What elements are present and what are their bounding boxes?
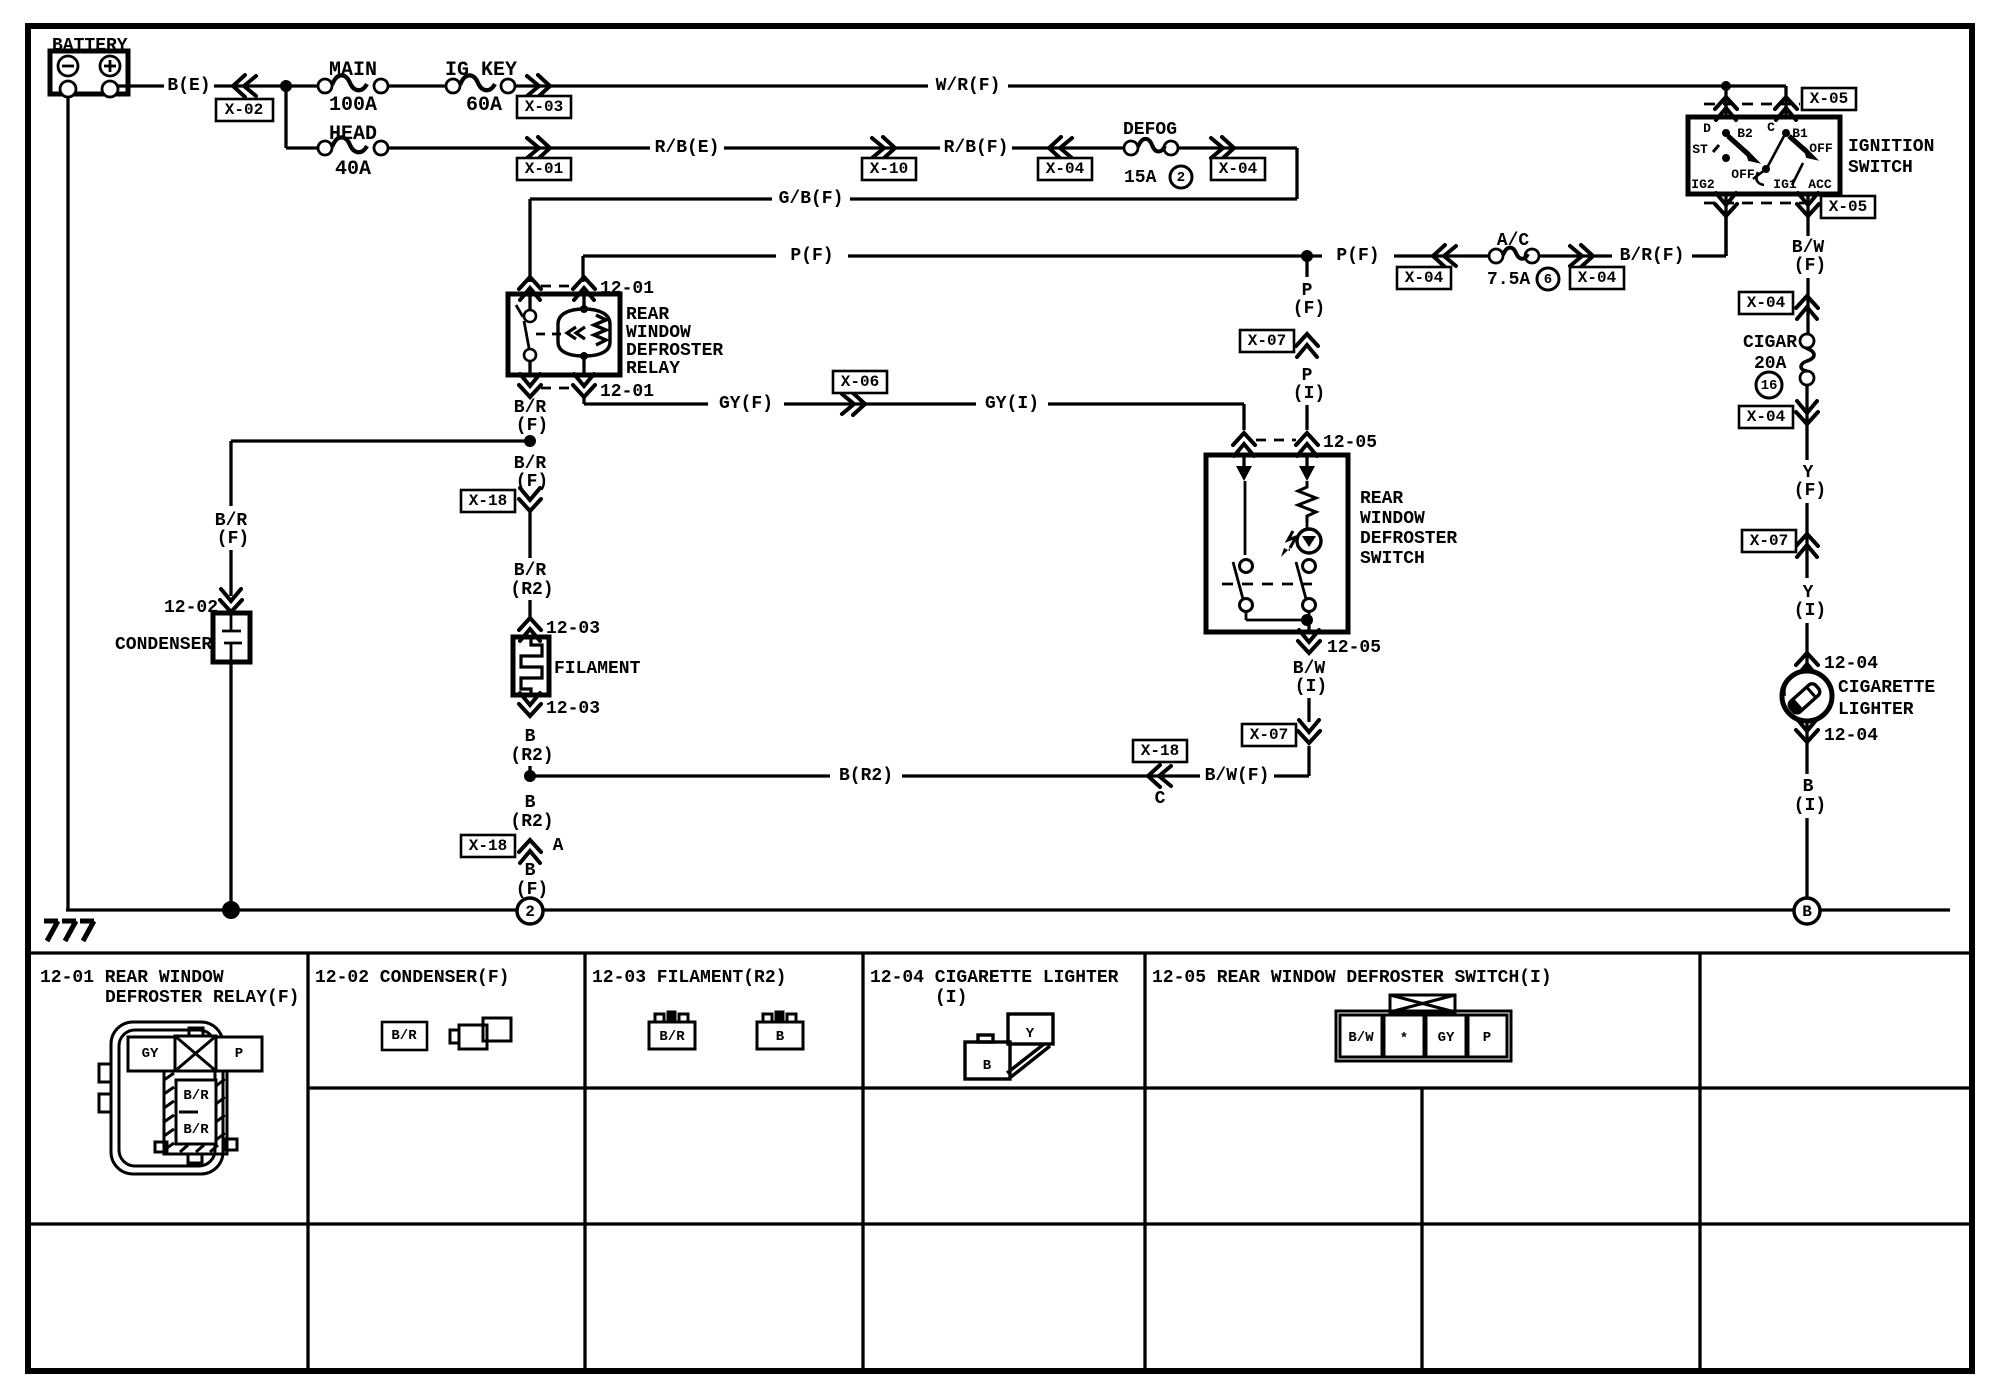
svg-text:B: B	[1803, 777, 1814, 797]
svg-text:X-10: X-10	[870, 160, 908, 178]
svg-text:X-04: X-04	[1578, 269, 1617, 287]
svg-text:X-07: X-07	[1750, 532, 1788, 550]
svg-text:B(E): B(E)	[167, 76, 210, 96]
wire to condenser branch	[231, 439, 530, 442]
connector X-05 bottom (dashed)	[1704, 202, 1815, 205]
svg-text:REAR: REAR	[1360, 489, 1403, 509]
12-03 terminal B/R	[649, 1012, 695, 1049]
svg-text:(F): (F)	[516, 416, 548, 436]
node junction main	[280, 80, 292, 92]
svg-text:B: B	[525, 861, 536, 881]
svg-text:P(F): P(F)	[1336, 246, 1379, 266]
svg-text:B/R: B/R	[391, 1028, 417, 1044]
svg-text:GY: GY	[1438, 1030, 1455, 1046]
relay switch contacts	[528, 294, 531, 310]
wire GY(F) from relay	[582, 398, 585, 404]
svg-text:IGNITION: IGNITION	[1848, 137, 1934, 157]
svg-text:6: 6	[1544, 272, 1552, 288]
svg-text:X-18: X-18	[1141, 742, 1179, 760]
wire W/R(F) drop to ignition switch	[1784, 86, 1787, 117]
node junction to condenser	[524, 435, 536, 447]
svg-text:X-03: X-03	[525, 98, 563, 116]
svg-text:P: P	[1302, 366, 1313, 386]
switch dashed link	[1222, 583, 1312, 586]
12-02 connector sketch	[450, 1018, 511, 1049]
svg-text:12-01 REAR WINDOW: 12-01 REAR WINDOW	[40, 968, 224, 988]
svg-text:2: 2	[525, 903, 535, 921]
svg-text:X-04: X-04	[1219, 160, 1258, 178]
ground connector B	[1794, 898, 1820, 924]
node junction B(R2)	[524, 770, 536, 782]
svg-text:(I): (I)	[1794, 796, 1826, 816]
svg-text:16: 16	[1761, 378, 1778, 394]
wire	[388, 84, 446, 87]
svg-text:12-03: 12-03	[546, 619, 600, 639]
wire B/W(F) down from ACC	[1806, 194, 1809, 236]
connector X-18 A	[519, 840, 541, 863]
connector X-10	[872, 137, 895, 159]
svg-text:40A: 40A	[335, 158, 371, 181]
svg-text:(F): (F)	[1794, 256, 1826, 276]
rear window defroster relay	[508, 294, 620, 375]
svg-text:(I): (I)	[1794, 601, 1826, 621]
svg-text:X-05: X-05	[1810, 90, 1848, 108]
svg-text:Y: Y	[1803, 463, 1814, 483]
wire G/B(F)	[850, 197, 1297, 200]
svg-text:B/W: B/W	[1348, 1030, 1374, 1046]
svg-text:B/R: B/R	[514, 454, 547, 474]
wire IG2 pin down	[1724, 194, 1727, 256]
svg-text:WINDOW: WINDOW	[626, 323, 691, 343]
svg-text:P: P	[235, 1046, 243, 1062]
wire	[1178, 146, 1297, 149]
svg-text:(F): (F)	[1794, 481, 1826, 501]
svg-text:(F): (F)	[1293, 299, 1325, 319]
svg-text:Y: Y	[1803, 583, 1814, 603]
wire corner down to G/B(F)	[1295, 148, 1298, 199]
connector 12-03 bottom	[519, 693, 541, 716]
connector X-04	[1211, 137, 1234, 159]
svg-text:(R2): (R2)	[510, 812, 553, 832]
svg-text:P(F): P(F)	[790, 246, 833, 266]
svg-text:GY(I): GY(I)	[985, 394, 1039, 414]
svg-text:B/R: B/R	[183, 1088, 209, 1104]
svg-text:100A: 100A	[329, 94, 377, 117]
ground symbol	[44, 921, 94, 941]
svg-text:X-05: X-05	[1829, 198, 1867, 216]
svg-text:12-05: 12-05	[1323, 433, 1377, 453]
svg-text:12-03 FILAMENT(R2): 12-03 FILAMENT(R2)	[592, 968, 786, 988]
svg-text:B/R: B/R	[183, 1122, 209, 1138]
connector 12-02	[220, 589, 242, 612]
svg-text:7.5A: 7.5A	[1487, 270, 1530, 290]
svg-text:(F): (F)	[217, 529, 249, 549]
svg-text:CIGARETTE: CIGARETTE	[1838, 678, 1935, 698]
svg-text:ACC: ACC	[1808, 177, 1832, 192]
svg-text:X-06: X-06	[841, 373, 879, 391]
fuse number 2	[1170, 166, 1192, 188]
svg-text:B/R(F): B/R(F)	[1620, 246, 1685, 266]
svg-text:B: B	[776, 1029, 785, 1045]
node P(F) junction	[1301, 250, 1313, 262]
ignition switch contacts	[1722, 129, 1730, 137]
svg-text:B/R: B/R	[514, 561, 547, 581]
svg-text:X-04: X-04	[1747, 408, 1786, 426]
svg-text:FILAMENT: FILAMENT	[554, 659, 641, 679]
connector X-07	[1298, 720, 1320, 743]
svg-text:DEFROSTER RELAY(F): DEFROSTER RELAY(F)	[105, 988, 299, 1008]
svg-text:SWITCH: SWITCH	[1848, 158, 1913, 178]
svg-text:C: C	[1767, 120, 1775, 135]
svg-text:DEFROSTER: DEFROSTER	[1360, 529, 1457, 549]
svg-text:2: 2	[1177, 170, 1185, 186]
wire B/R(F)	[1539, 254, 1612, 257]
svg-text:CIGAR: CIGAR	[1743, 333, 1797, 353]
cigarette lighter 12-04	[1782, 671, 1832, 721]
connector X-04	[1796, 401, 1818, 424]
svg-text:REAR: REAR	[626, 305, 669, 325]
svg-text:DEFROSTER: DEFROSTER	[626, 341, 723, 361]
svg-text:GY(F): GY(F)	[719, 394, 773, 414]
connector X-02	[233, 75, 256, 97]
svg-text:12-02: 12-02	[164, 598, 218, 618]
wire R/B(E)	[388, 146, 650, 149]
svg-text:GY: GY	[142, 1046, 159, 1062]
fuse number 16	[1756, 372, 1782, 398]
svg-text:OFF: OFF	[1731, 167, 1755, 182]
svg-text:12-04: 12-04	[1824, 654, 1878, 674]
svg-text:12-02 CONDENSER(F): 12-02 CONDENSER(F)	[315, 968, 509, 988]
wire branch to HEAD fuse	[284, 86, 287, 148]
connector 12-05 bottom	[1298, 630, 1320, 653]
svg-text:B: B	[1802, 903, 1812, 921]
svg-text:LIGHTER: LIGHTER	[1838, 700, 1914, 720]
switch left branch	[1242, 455, 1245, 466]
svg-text:12-05 REAR WINDOW DEFROSTER SW: 12-05 REAR WINDOW DEFROSTER SWITCH(I)	[1152, 968, 1552, 988]
svg-text:B: B	[525, 793, 536, 813]
connector X-05 top (dashed)	[1704, 103, 1800, 106]
svg-text:WINDOW: WINDOW	[1360, 509, 1425, 529]
table headers	[40, 968, 1552, 1008]
svg-text:15A: 15A	[1124, 168, 1157, 188]
svg-text:X-04: X-04	[1405, 269, 1444, 287]
connector X-07	[1796, 534, 1818, 557]
svg-text:G/B(F): G/B(F)	[779, 189, 844, 209]
svg-text:P: P	[1483, 1030, 1491, 1046]
ground bus	[66, 908, 1950, 911]
svg-text:X-02: X-02	[225, 101, 263, 119]
connector X-04	[1796, 296, 1818, 319]
svg-text:(R2): (R2)	[510, 580, 553, 600]
svg-text:CONDENSER: CONDENSER	[115, 635, 212, 655]
12-03 terminal B	[757, 1012, 803, 1049]
svg-text:B/R: B/R	[215, 511, 248, 531]
node junction at ignition feed	[1721, 81, 1731, 91]
table grid	[28, 953, 1972, 1371]
svg-text:A: A	[553, 836, 564, 856]
connector X-18	[1148, 765, 1171, 787]
svg-text:X-18: X-18	[469, 492, 507, 510]
node ground junction	[222, 901, 240, 919]
relay 12-01 connector bottom (dashed)	[541, 387, 573, 390]
wire B/R(F) condenser branch	[229, 441, 232, 506]
svg-text:12-01: 12-01	[600, 382, 654, 402]
connector X-04	[1433, 245, 1456, 267]
svg-text:IG2: IG2	[1691, 177, 1715, 192]
ignition switch U1	[1688, 117, 1840, 194]
12-04 terminal sketch	[965, 1014, 1053, 1079]
svg-text:OFF: OFF	[1809, 141, 1833, 156]
rear window defroster switch	[1206, 455, 1348, 632]
svg-text:12-04: 12-04	[1824, 726, 1878, 746]
svg-text:(I): (I)	[935, 988, 967, 1008]
connector X-04	[1049, 137, 1072, 159]
svg-text:Y: Y	[1026, 1026, 1035, 1042]
connector 12-04 top	[1796, 653, 1818, 676]
svg-text:RELAY: RELAY	[626, 359, 680, 379]
svg-text:X-07: X-07	[1248, 332, 1286, 350]
wire battery negative to ground bus	[66, 97, 69, 910]
wire B(R2) to switch return	[530, 774, 830, 777]
connector 12-05 top (dashed)	[1256, 439, 1296, 442]
svg-text:X-01: X-01	[525, 160, 563, 178]
ground connector 2	[517, 898, 543, 924]
wire P(F)	[583, 254, 776, 257]
svg-text:B/R: B/R	[514, 398, 547, 418]
svg-text:B: B	[983, 1058, 992, 1074]
wire Y(F)	[1805, 385, 1808, 460]
switch right branch with lamp	[1305, 455, 1308, 466]
svg-text:12-04 CIGARETTE LIGHTER: 12-04 CIGARETTE LIGHTER	[870, 968, 1119, 988]
12-05 connector pictogram	[1336, 995, 1511, 1061]
fuse number 6	[1537, 268, 1559, 290]
svg-text:*: *	[1400, 1031, 1408, 1047]
svg-text:D: D	[1703, 121, 1711, 136]
svg-text:B/W: B/W	[1293, 659, 1326, 679]
svg-text:B/R: B/R	[659, 1029, 685, 1045]
svg-text:B: B	[525, 727, 536, 747]
svg-text:X-04: X-04	[1046, 160, 1085, 178]
condenser	[213, 613, 250, 662]
relay coil	[582, 294, 585, 309]
node switch output junction	[1301, 614, 1313, 626]
connector 12-04 bottom	[1805, 721, 1808, 774]
connector X-07	[1296, 334, 1318, 357]
filament heater element	[513, 637, 549, 695]
svg-text:X-04: X-04	[1747, 294, 1786, 312]
svg-text:P: P	[1302, 281, 1313, 301]
svg-text:(R2): (R2)	[510, 746, 553, 766]
connector X-03	[527, 75, 550, 97]
connector X-01	[527, 137, 550, 159]
svg-text:12-05: 12-05	[1327, 638, 1381, 658]
svg-text:(I): (I)	[1295, 677, 1327, 697]
svg-text:X-07: X-07	[1250, 726, 1288, 744]
wire to ground bus	[229, 662, 232, 910]
svg-text:B/W(F): B/W(F)	[1205, 766, 1270, 786]
svg-text:B2: B2	[1737, 126, 1753, 141]
svg-text:12-03: 12-03	[546, 699, 600, 719]
svg-text:SWITCH: SWITCH	[1360, 549, 1425, 569]
svg-text:(I): (I)	[1293, 384, 1325, 404]
svg-text:ST: ST	[1692, 142, 1708, 157]
12-02 terminal B/R	[382, 1022, 427, 1050]
svg-text:B(R2): B(R2)	[839, 766, 893, 786]
12-01 connector pictogram	[99, 1022, 262, 1174]
svg-text:X-18: X-18	[469, 837, 507, 855]
connector X-18	[519, 488, 541, 511]
svg-text:W/R(F): W/R(F)	[936, 76, 1001, 96]
svg-text:R/B(E): R/B(E)	[655, 138, 720, 158]
wire W/R(F)	[515, 84, 928, 87]
svg-text:B/W: B/W	[1792, 238, 1825, 258]
relay 12-01 connector top (dashed)	[541, 285, 573, 288]
svg-text:C: C	[1155, 789, 1166, 809]
connector X-06	[842, 393, 865, 415]
wire B(E)	[118, 84, 164, 87]
connector 12-03 top	[519, 618, 541, 641]
svg-text:R/B(F): R/B(F)	[944, 138, 1009, 158]
svg-text:DEFOG: DEFOG	[1123, 120, 1177, 140]
svg-text:60A: 60A	[466, 94, 502, 117]
